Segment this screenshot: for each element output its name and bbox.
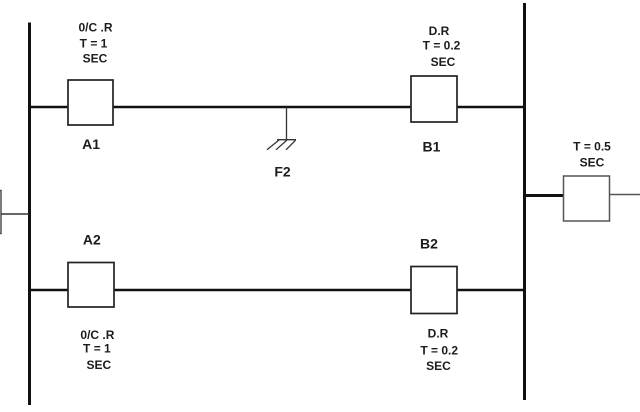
breaker source (partial, left edge) — [0, 191, 1, 234]
svg-text:0/C .R: 0/C .R — [78, 21, 112, 35]
svg-text:F2: F2 — [274, 163, 291, 179]
bus left — [28, 23, 31, 406]
svg-text:A1: A1 — [82, 136, 100, 152]
breaker B2 — [411, 267, 457, 314]
wire left source stub — [0, 213, 29, 215]
svg-text:D.R: D.R — [428, 327, 449, 341]
breaker right T=0.5 — [564, 176, 610, 221]
svg-text:A2: A2 — [83, 231, 101, 247]
svg-text:0/C .R: 0/C .R — [80, 328, 114, 342]
svg-text:T = 0.2: T = 0.2 — [420, 343, 458, 357]
wire bottom feeder — [29, 289, 523, 292]
fault F2 stem wire — [286, 107, 288, 140]
svg-text:SEC: SEC — [83, 52, 108, 66]
svg-text:SEC: SEC — [431, 55, 456, 69]
fault F2 earth symbol — [267, 140, 296, 150]
wire right bus to breaker — [523, 194, 564, 197]
svg-text:B2: B2 — [420, 236, 438, 252]
svg-text:B1: B1 — [423, 139, 441, 155]
svg-text:D.R: D.R — [429, 24, 450, 38]
wire top feeder — [29, 106, 523, 109]
breaker A1 — [68, 80, 113, 125]
bus right — [523, 3, 526, 400]
svg-text:T = 1: T = 1 — [80, 37, 108, 51]
svg-text:SEC: SEC — [87, 358, 112, 372]
svg-text:SEC: SEC — [580, 155, 605, 169]
breaker B1 — [411, 76, 457, 122]
svg-text:T = 0.2: T = 0.2 — [423, 39, 461, 53]
breaker A2 — [68, 263, 114, 308]
wire right breaker to edge — [609, 194, 640, 196]
svg-text:T = 0.5: T = 0.5 — [573, 139, 611, 153]
svg-text:SEC: SEC — [426, 359, 451, 373]
svg-text:T = 1: T = 1 — [83, 342, 111, 356]
